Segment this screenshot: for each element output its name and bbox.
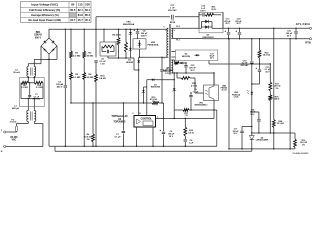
- AC input terminal N: [1, 145, 6, 153]
- svg-text:RTN: RTN: [305, 42, 310, 45]
- diode D8: [179, 62, 187, 65]
- wires inside filter box: [21, 77, 43, 100]
- capacitor C5: [94, 29, 106, 66]
- wire choke L2 left to bridge: [28, 46, 41, 67]
- output terminal rtn: [305, 38, 311, 45]
- filter box: [20, 78, 45, 107]
- svg-text:CONTROL: CONTROL: [141, 119, 153, 121]
- svg-text:604 Ω: 604 Ω: [274, 98, 280, 101]
- snubber wires: [199, 12, 223, 28]
- Y return line: [55, 146, 252, 151]
- clamp box R7 C3: [100, 29, 131, 58]
- R16 divider line: [252, 133, 308, 149]
- svg-text:No-load Input Power (mW): No-load Input Power (mW): [29, 18, 62, 22]
- svg-text:LMV431AIMF: LMV431AIMF: [256, 139, 269, 142]
- capacitor C2: [56, 29, 67, 147]
- zener VR2 clamp: [129, 37, 140, 71]
- svg-text:Full Power Efficiency (%): Full Power Efficiency (%): [29, 8, 60, 12]
- pin labels: [132, 113, 158, 119]
- resistor R14: [95, 63, 106, 147]
- svg-text:275 VAC: 275 VAC: [33, 97, 41, 100]
- svg-text:BAV21WS: BAV21WS: [151, 86, 161, 89]
- svg-text:5.1 MΩ: 5.1 MΩ: [36, 87, 43, 89]
- fuse F1: [10, 119, 18, 132]
- svg-text:0.1 µF: 0.1 µF: [193, 91, 199, 93]
- svg-text:10 MΩ: 10 MΩ: [87, 77, 94, 79]
- svg-text:VSB10100X: VSB10100X: [202, 37, 214, 39]
- resistor R9: [21, 81, 28, 89]
- capacitor C17f: [233, 126, 253, 150]
- opto wires: [213, 72, 214, 110]
- wire L terminal to fuse: [6, 131, 17, 133]
- output diode D5: [199, 12, 223, 39]
- resistor R3: [70, 58, 81, 103]
- resistor R24: [272, 28, 284, 150]
- resistor R10: [34, 81, 43, 89]
- table: efficiency summary: [21, 2, 92, 23]
- svg-text:R5 20 Ω: R5 20 Ω: [112, 34, 120, 36]
- bridge rectifier BR1: [34, 32, 57, 54]
- svg-text:1%: 1%: [152, 101, 155, 103]
- svg-text:25.7: 25.7: [78, 18, 84, 22]
- svg-text:5.1 MΩ: 5.1 MΩ: [73, 77, 80, 79]
- svg-text:1 µF: 1 µF: [189, 143, 194, 145]
- svg-text:1-H-A: 1-H-A: [233, 95, 239, 98]
- resistor R1: [70, 29, 81, 58]
- svg-text:25 V: 25 V: [236, 23, 241, 25]
- wire primary top: [167, 28, 170, 29]
- svg-text:85: 85: [71, 3, 75, 7]
- svg-text:84.8: 84.8: [78, 13, 84, 17]
- svg-text:250 VAC: 250 VAC: [241, 64, 250, 67]
- resistor R7: [125, 29, 128, 59]
- feedback column A bottom: [251, 97, 252, 134]
- ground rail: [49, 110, 217, 146]
- svg-text:85.4: 85.4: [85, 13, 91, 17]
- svg-text:0.1 µF: 0.1 µF: [115, 137, 122, 139]
- svg-text:400 V: 400 V: [141, 35, 147, 38]
- wire N terminal to choke L1: [6, 122, 43, 147]
- wire secondary top: [171, 27, 199, 29]
- rectifier box D6: [171, 50, 217, 61]
- svg-text:6.8 Ω: 6.8 Ω: [188, 133, 193, 135]
- svg-text:1 Ω: 1 Ω: [184, 115, 188, 117]
- svg-text:BR1: BR1: [36, 32, 41, 34]
- B+ rail: [49, 28, 168, 30]
- bias bottom line: [174, 73, 214, 85]
- svg-text:14.3 kΩ: 14.3 kΩ: [263, 54, 271, 57]
- output terminal plus: [296, 22, 312, 29]
- wire primary bottom to drain: [139, 56, 169, 58]
- svg-text:P6KE300A: P6KE300A: [148, 44, 159, 47]
- svg-text:115: 115: [78, 3, 83, 7]
- zener VR1: [123, 22, 135, 38]
- svg-text:PI-4640-060809: PI-4640-060809: [293, 152, 309, 155]
- svg-text:600 V: 600 V: [35, 37, 41, 39]
- svg-text:82.1: 82.1: [78, 8, 84, 12]
- svg-text:Input Voltage (VAC): Input Voltage (VAC): [31, 3, 58, 7]
- svg-text:3.15 A: 3.15 A: [10, 121, 17, 124]
- ground line right: [229, 148, 295, 150]
- TVS VR3: [133, 39, 159, 58]
- wire choke L1 to filter box: [28, 99, 34, 111]
- resistor R6: [84, 102, 94, 147]
- svg-text:39 Ω: 39 Ω: [211, 9, 216, 11]
- capacitor C21: [286, 28, 298, 40]
- snubber labels: [200, 5, 216, 12]
- X pin line: [147, 79, 175, 116]
- capacitor C14: [235, 18, 242, 40]
- series R12 C8: [184, 118, 194, 147]
- svg-text:VAC: VAC: [12, 139, 17, 142]
- svg-text:16 V: 16 V: [169, 136, 174, 138]
- svg-text:50 V: 50 V: [190, 70, 195, 72]
- secondary + rail: [223, 27, 310, 29]
- svg-text:GBU4J: GBU4J: [34, 34, 42, 37]
- Y return join: [251, 149, 253, 151]
- svg-text:2.4 kΩ: 2.4 kΩ: [99, 77, 106, 80]
- PI number: [293, 152, 309, 155]
- resistor R20: [258, 38, 270, 64]
- svg-text:230: 230: [85, 3, 90, 7]
- capacitor C10: [251, 64, 271, 85]
- svg-text:1 kV: 1 kV: [100, 64, 105, 66]
- wire bridge minus to ground rail: [48, 54, 49, 146]
- control line: [156, 110, 215, 118]
- TOPSwitch U2: [111, 115, 155, 127]
- capacitor C18: [250, 110, 261, 134]
- capacitor C16: [189, 89, 199, 111]
- resistor R2: [83, 29, 94, 58]
- resistor R15: [176, 72, 203, 93]
- svg-text:22.1 kΩ: 22.1 kΩ: [277, 123, 285, 125]
- resistor R5: [112, 29, 120, 59]
- svg-text:Average Efficiency (%): Average Efficiency (%): [31, 13, 59, 17]
- choke L2: [13, 67, 36, 77]
- svg-text:680 µH: 680 µH: [12, 108, 20, 110]
- svg-text:250 VAC: 250 VAC: [168, 9, 177, 12]
- capacitor C19: [241, 38, 254, 89]
- optocoupler U5B: [204, 85, 228, 101]
- svg-text:1%: 1%: [302, 144, 305, 146]
- svg-text:25 V: 25 V: [225, 23, 230, 25]
- svg-text:MMSZ5248B-7: MMSZ5248B-7: [195, 104, 208, 107]
- wire choke L2 right to bridge: [34, 46, 57, 67]
- svg-text:1%: 1%: [86, 139, 89, 141]
- capacitor C13: [224, 19, 231, 40]
- svg-text:400 V: 400 V: [57, 86, 63, 89]
- svg-text:50 V: 50 V: [265, 71, 270, 73]
- wire bridge plus to B+ rail: [48, 29, 50, 38]
- capacitor C4: [134, 29, 148, 39]
- svg-text:1%: 1%: [276, 88, 279, 90]
- capacitor C6: [160, 118, 175, 147]
- svg-text:100 V: 100 V: [200, 10, 206, 12]
- choke L1: [12, 106, 36, 122]
- zener VR2 bias: [172, 72, 207, 110]
- svg-text:EF25: EF25: [170, 22, 176, 24]
- bias output line: [209, 61, 271, 65]
- label 85-265 VAC: [10, 137, 18, 142]
- svg-text:12 V, 2.93 A: 12 V, 2.93 A: [296, 22, 310, 26]
- svg-text:30 mH: 30 mH: [13, 72, 20, 74]
- sense line: [70, 97, 163, 119]
- svg-text:SB10100: SB10100: [182, 56, 191, 58]
- wire secondary bottom: [171, 37, 310, 39]
- bias ground line: [173, 109, 216, 120]
- wire bias pins: [171, 60, 174, 73]
- svg-text:A-1-H: A-1-H: [221, 89, 227, 92]
- opto LED U5A: [232, 90, 253, 99]
- svg-text:5.1 MΩ: 5.1 MΩ: [21, 87, 28, 89]
- rtn drop: [289, 38, 290, 150]
- svg-text:45.1: 45.1: [85, 18, 91, 22]
- resistor R19: [163, 62, 179, 72]
- svg-text:50 V: 50 V: [287, 36, 292, 38]
- svg-text:10 MΩ: 10 MΩ: [87, 55, 94, 57]
- drain line: [126, 57, 140, 115]
- capacitor C11: [168, 5, 177, 19]
- svg-text:24.7: 24.7: [70, 18, 76, 22]
- IC source pins: [136, 127, 154, 147]
- svg-text:BAV21WS: BAV21WS: [163, 69, 174, 72]
- shunt regulator U4: [249, 133, 269, 150]
- svg-text:UF4005: UF4005: [126, 61, 134, 64]
- resistor R17: [269, 64, 281, 95]
- svg-text:SMAJ250A: SMAJ250A: [123, 23, 135, 26]
- AC input terminal L: [1, 129, 6, 133]
- svg-text:83.1: 83.1: [85, 8, 91, 12]
- resistor R18: [269, 95, 280, 134]
- svg-text:4.7 kΩ: 4.7 kΩ: [191, 85, 198, 88]
- wire fuse to choke L1: [17, 122, 29, 124]
- capacitor C7d: [160, 57, 171, 104]
- wire Y line: [96, 17, 199, 30]
- transformer T1: [163, 20, 180, 75]
- svg-text:5.1 MΩ: 5.1 MΩ: [73, 55, 80, 57]
- zener VR4: [142, 87, 147, 104]
- capacitor C15: [184, 63, 196, 74]
- resistor R4: [83, 58, 94, 147]
- capacitor CX1: [28, 82, 40, 100]
- svg-text:TOP269EG: TOP269EG: [113, 121, 125, 124]
- capacitor C7: [115, 102, 126, 147]
- svg-text:80.5: 80.5: [70, 8, 76, 12]
- rtn to fb ground: [228, 38, 229, 150]
